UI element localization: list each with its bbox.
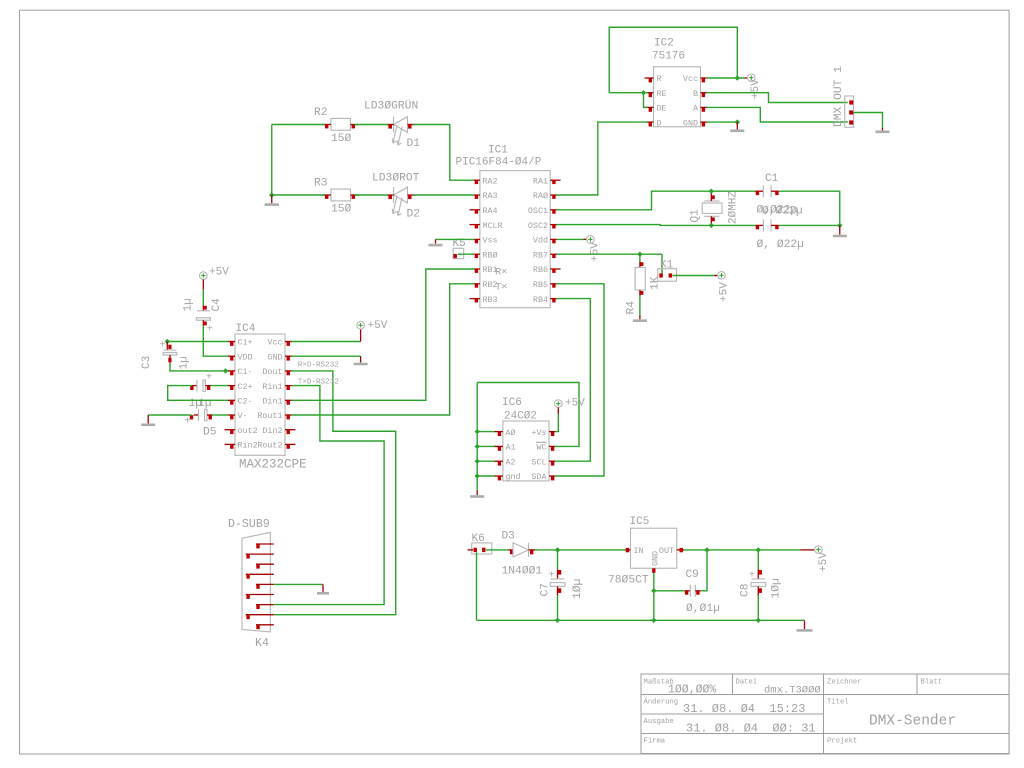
- wire vertical joining RA2 net column to ground: [271, 125, 273, 196]
- wire K5 to RB0: [458, 253, 475, 255]
- svg-text:OSC2: OSC2: [528, 221, 548, 231]
- svg-text:MCLR: MCLR: [483, 221, 503, 231]
- svg-text:+: +: [160, 341, 166, 352]
- svg-text:GND: GND: [267, 352, 282, 362]
- junction C7 top: [555, 547, 560, 552]
- wire R3 to D2: [355, 194, 389, 196]
- svg-text:+: +: [549, 571, 555, 582]
- svg-text:R×D-RS232: R×D-RS232: [298, 362, 339, 370]
- svg-text:SDA: SDA: [531, 472, 547, 482]
- junction IC5 GND / C9: [651, 588, 656, 593]
- svg-text:OSC1: OSC1: [528, 206, 548, 216]
- wire cap to V- of IC4: [212, 414, 228, 416]
- svg-text:78Ø5CT: 78Ø5CT: [608, 575, 649, 587]
- svg-text:Datei: Datei: [736, 679, 758, 687]
- capacitor C7 (10u) polarized: [549, 550, 566, 596]
- supply +5V symbol at K1: [714, 272, 731, 303]
- ground symbol at DMX OUT: [876, 128, 890, 132]
- svg-text:Ausgabe: Ausgabe: [644, 718, 674, 726]
- svg-text:D3: D3: [502, 531, 515, 543]
- junction ground rail / IC5 GND: [651, 618, 656, 623]
- ground symbol at rail end: [797, 620, 813, 630]
- wire B of IC2 to DMX OUT pin1: [707, 93, 848, 103]
- svg-text:VDD: VDD: [238, 352, 253, 362]
- wire ground column to R3: [272, 194, 325, 196]
- svg-text:IC4: IC4: [236, 323, 256, 335]
- svg-text:A2: A2: [506, 457, 516, 467]
- ground symbol at K4 pin5: [317, 584, 329, 593]
- IC2 left pins R,RE,DE,D: [645, 78, 654, 127]
- IC6 left pins A0,A1,A2,gnd: [494, 432, 503, 481]
- svg-text:+5V: +5V: [818, 552, 830, 572]
- svg-text:+5V: +5V: [209, 267, 229, 279]
- ground symbol at Vss: [429, 239, 443, 245]
- svg-text:DE: DE: [657, 104, 667, 114]
- svg-text:RB7: RB7: [533, 250, 548, 260]
- wire ground rail: [477, 619, 805, 621]
- connector K4 D-SUB9 body: [242, 532, 270, 632]
- connector K6 power input: [468, 543, 492, 554]
- svg-text:RB3: RB3: [483, 295, 498, 305]
- svg-text:C1-: C1-: [238, 367, 253, 377]
- wire D2 to IC1 RA3: [413, 194, 475, 196]
- wire RB7 to R4/K1 node: [557, 253, 663, 255]
- K4 pin 8: [246, 615, 274, 619]
- svg-text:C7: C7: [540, 583, 552, 597]
- svg-text:out2: out2: [238, 426, 258, 436]
- supply +5V symbol at IC5 OUT: [801, 546, 831, 572]
- IC U2: IC2 75176 body: [654, 67, 701, 127]
- junction OUT/C9: [704, 547, 709, 552]
- IC6 right pin names: [531, 428, 547, 482]
- svg-text:+Vs: +Vs: [531, 428, 546, 438]
- svg-text:C1+: C1+: [238, 338, 253, 348]
- junction gnd: [475, 473, 480, 478]
- wire Vcc of IC4 to +5V: [292, 341, 361, 343]
- svg-text:Dout: Dout: [262, 367, 282, 377]
- svg-text:Vss: Vss: [483, 236, 498, 246]
- svg-text:GND: GND: [683, 118, 698, 128]
- svg-text:Rin2: Rin2: [238, 441, 258, 451]
- ground symbol at IC4 GND: [354, 356, 368, 364]
- wire R4 to ground: [639, 296, 641, 316]
- wire C8 to ground rail: [757, 596, 759, 621]
- svg-text:Vcc: Vcc: [267, 338, 282, 348]
- wire C2 right side to ground node: [779, 224, 840, 226]
- svg-text:R4: R4: [626, 301, 638, 315]
- K4 pin 7: [256, 605, 274, 609]
- junction ground rail / C7: [555, 618, 560, 623]
- connector DMX OUT 1: [845, 96, 854, 127]
- wire bus loop over IC6 to WC pin: [477, 383, 579, 447]
- IC4 left pin names: [238, 338, 258, 451]
- capacitor C5b (1u) between C2+ and C2-: [190, 373, 212, 392]
- svg-text:Zeichner: Zeichner: [827, 679, 862, 687]
- ground symbol below R4: [633, 315, 647, 321]
- IC U6: IC6 24C02 body: [503, 421, 549, 481]
- svg-text:K6: K6: [472, 533, 485, 545]
- wire C5 to C1- of IC4: [170, 363, 228, 371]
- IC2 right pin names: [683, 74, 699, 128]
- svg-text:B: B: [693, 89, 698, 99]
- wire RB4 of IC1 to SCL of IC6: [555, 299, 590, 462]
- wire K6 pin1 down to ground rail: [476, 552, 478, 620]
- svg-text:1Øµ: 1Øµ: [572, 579, 584, 599]
- wire C1+ of IC4 to capacitor C5: [167, 342, 228, 345]
- wire DMX OUT pin2 to ground: [853, 113, 883, 128]
- svg-text:C4: C4: [211, 298, 223, 312]
- svg-text:75176: 75176: [652, 51, 685, 63]
- svg-text:R×: R×: [495, 267, 508, 279]
- wire IC5 GND down to ground rail: [653, 573, 655, 620]
- capacitor C9 (0,01u): [685, 585, 701, 597]
- svg-text:RB5: RB5: [533, 280, 548, 290]
- svg-text:D1: D1: [407, 138, 421, 150]
- svg-text:15Ø: 15Ø: [331, 133, 352, 145]
- wire Dout of IC4 to D-SUB9 pin8: [274, 371, 396, 615]
- wire IC5 GND to C9: [654, 590, 685, 592]
- svg-text:31. Ø8. Ø4 ØØ: 31: 31. Ø8. Ø4 ØØ: 31: [686, 722, 816, 736]
- capacitor C5 (1u) polarized between C1+ and C1-: [160, 341, 177, 364]
- svg-text:RBØ: RBØ: [483, 250, 498, 260]
- wire C9 right to OUT rail: [701, 550, 707, 591]
- svg-text:DMX-Sender: DMX-Sender: [869, 714, 956, 730]
- svg-text:31. Ø8. Ø4 15:23: 31. Ø8. Ø4 15:23: [683, 702, 805, 716]
- svg-text:IC5: IC5: [630, 516, 650, 528]
- capacitor C4 (1u) polarized: [196, 306, 213, 336]
- svg-text:IC2: IC2: [654, 38, 674, 50]
- svg-text:LD3ØGRÜN: LD3ØGRÜN: [364, 100, 418, 113]
- svg-text:Ø, Ø22µ: Ø, Ø22µ: [757, 239, 804, 251]
- junction A2: [475, 459, 480, 464]
- wire C7 to ground rail: [557, 596, 559, 621]
- wire down to K1 pin 1: [661, 254, 663, 274]
- wire A of IC2 to DMX OUT pin3: [707, 107, 848, 122]
- svg-text:Ø,Ø1µ: Ø,Ø1µ: [686, 603, 720, 615]
- svg-text:+5V: +5V: [565, 398, 585, 410]
- junction on C1- wire: [223, 368, 228, 373]
- svg-text:K4: K4: [255, 637, 269, 650]
- svg-text:Din1: Din1: [262, 397, 282, 407]
- svg-text:Din2: Din2: [262, 426, 282, 436]
- wire IC5 OUT to +5V: [684, 549, 801, 551]
- wire OSC1 of IC1 to crystal/C1: [557, 191, 756, 210]
- svg-text:RA4: RA4: [483, 206, 498, 216]
- svg-text:RA2: RA2: [483, 176, 498, 186]
- wire net RA2: left vertical from R2 to ground rail column: [272, 124, 325, 126]
- svg-text:R2: R2: [314, 107, 328, 119]
- svg-text:Firma: Firma: [644, 738, 666, 746]
- wire R2 to D1: [355, 124, 389, 126]
- wire D3 to IC5 IN: [535, 549, 626, 551]
- IC4 left pins C1+,VDD,C1-,C2+,C2-,V-,out2,Rin2: [225, 342, 236, 449]
- K4 pin 3: [256, 564, 274, 568]
- wire A1 to bus: [477, 445, 494, 447]
- svg-text:Ø,Ø22µ: Ø,Ø22µ: [762, 206, 803, 218]
- wire Rin1 of IC4 to D-SUB9 pin7: [274, 386, 384, 605]
- junction A0: [475, 429, 480, 434]
- IC1 left pin names: [483, 176, 503, 304]
- svg-text:LD3ØROT: LD3ØROT: [372, 173, 420, 185]
- junction ground rail / C8: [756, 618, 761, 623]
- junction RB7/R4: [637, 252, 642, 257]
- svg-text:DMX OUT 1: DMX OUT 1: [833, 66, 845, 127]
- wire +5V to C4: [202, 290, 204, 306]
- svg-text:V-: V-: [238, 411, 248, 421]
- svg-text:Titel: Titel: [827, 699, 849, 707]
- svg-text:2ØMHZ: 2ØMHZ: [728, 191, 740, 224]
- IC2 left pin names: [657, 74, 667, 128]
- svg-text:1K: 1K: [650, 276, 662, 290]
- crystal Q1: [702, 191, 722, 225]
- wire C2+ cap to C2- of IC4: [168, 386, 228, 401]
- ground symbol below IC6 bus: [470, 491, 484, 497]
- svg-text:Vdd: Vdd: [533, 236, 548, 246]
- ground symbol at V- cap: [141, 415, 155, 425]
- wire D1 to IC1 RA2: [413, 125, 475, 181]
- svg-text:RB6: RB6: [533, 265, 548, 275]
- junction crystal top / OSC1: [709, 189, 714, 194]
- svg-text:WC: WC: [536, 443, 546, 453]
- svg-text:OUT: OUT: [659, 546, 674, 556]
- supply +5V symbol at IC4 Vcc: [357, 320, 388, 342]
- svg-text:RB4: RB4: [533, 295, 548, 305]
- wire Vss to ground: [436, 238, 475, 240]
- supply +5V symbol above C4: [200, 267, 230, 290]
- svg-text:+: +: [185, 417, 191, 428]
- wire OSC2 of IC1 to crystal/C2: [557, 224, 756, 227]
- wire RB5 of IC1 to SDA of IC6: [555, 284, 604, 476]
- svg-text:+: +: [207, 325, 213, 336]
- IC6 left pin names: [506, 428, 521, 482]
- wire +5V to +Vs pin: [555, 414, 558, 432]
- svg-text:SCL: SCL: [531, 457, 546, 467]
- svg-text:+5V: +5V: [368, 320, 388, 332]
- svg-text:C9: C9: [686, 569, 699, 581]
- svg-text:RA3: RA3: [483, 191, 498, 201]
- svg-text:Rout1: Rout1: [257, 411, 282, 421]
- junction at LED ground column: [269, 192, 274, 197]
- svg-text:1ØØ,ØØ%: 1ØØ,ØØ%: [668, 684, 716, 697]
- svg-text:1µ: 1µ: [179, 356, 191, 369]
- ground symbol below LED column: [265, 195, 280, 205]
- svg-text:Projekt: Projekt: [827, 738, 857, 746]
- svg-text:+: +: [749, 571, 755, 582]
- svg-text:D-SUB9: D-SUB9: [228, 518, 270, 531]
- svg-text:D: D: [657, 118, 662, 128]
- wire V- cap to ground: [148, 414, 191, 416]
- IC6 right pins +Vs,WC,SCL,SDA: [549, 432, 555, 481]
- svg-text:PIC16F84-Ø4/P: PIC16F84-Ø4/P: [456, 157, 542, 169]
- junction Vcc/top loop: [735, 75, 740, 80]
- svg-text:IC1: IC1: [488, 145, 508, 157]
- wire K1 pin2 to +5V: [673, 275, 715, 277]
- title block frame: [641, 674, 1009, 754]
- wire K4 pin5 to ground: [274, 583, 323, 585]
- wire C1 right side down to ground node: [779, 191, 840, 225]
- ground symbol at IC2 GND: [730, 122, 744, 131]
- svg-text:+5V: +5V: [719, 282, 731, 302]
- svg-text:15Ø: 15Ø: [331, 204, 352, 216]
- wire Din1 of IC4 to RB1 (Rx) of IC1: [292, 269, 475, 400]
- svg-text:C2-: C2-: [238, 397, 253, 407]
- K4 pin 2: [246, 554, 274, 558]
- svg-text:24CØ2: 24CØ2: [504, 411, 537, 423]
- IC2 right pins Vcc,B,A,GND: [701, 78, 707, 127]
- IC U1: IC1 PIC16F84-04/P body: [480, 171, 550, 308]
- svg-text:C1: C1: [765, 173, 779, 185]
- jumper K5 at RB0: [453, 248, 464, 258]
- capacitor C2 (0,022u) bottom: [756, 219, 779, 231]
- wire K6 pin2 to D3: [486, 549, 509, 551]
- K4 pin 5: [256, 584, 274, 588]
- svg-text:+5V: +5V: [590, 242, 602, 262]
- svg-text:IN: IN: [634, 546, 644, 556]
- LED D2: [387, 187, 416, 215]
- junction OUT/C8: [756, 547, 761, 552]
- LED D1: [387, 117, 416, 145]
- wire Vcc of IC2 to +5V: [707, 77, 745, 79]
- IC1 left pins RA2,RA3,RA4,MCLR,Vss,RB0,RB1,RB2,RB3: [470, 180, 480, 303]
- svg-text:Blatt: Blatt: [921, 679, 943, 687]
- svg-text:C3: C3: [141, 356, 153, 369]
- svg-text:R3: R3: [314, 178, 328, 190]
- K4 pin 4: [246, 574, 274, 578]
- svg-text:Vcc: Vcc: [683, 74, 698, 84]
- capacitor C8 (10u) polarized: [749, 550, 766, 596]
- svg-text:Änderung: Änderung: [644, 698, 679, 707]
- IC5 OUT pin: [677, 548, 684, 552]
- junction C1+ corner: [165, 339, 170, 344]
- svg-text:C2+: C2+: [238, 382, 253, 392]
- svg-text:1Øµ: 1Øµ: [771, 578, 783, 598]
- IC5 GND pin: [652, 568, 655, 573]
- wire IC6 address/gnd bus vertical: [476, 383, 478, 491]
- svg-text:C8: C8: [740, 583, 752, 597]
- svg-text:Rin1: Rin1: [262, 382, 282, 392]
- overline of WC pin name: [536, 441, 547, 443]
- IC1 right pin names: [528, 176, 548, 304]
- supply +5V symbol at IC2 Vcc: [745, 74, 763, 99]
- svg-text:D5: D5: [203, 427, 217, 439]
- resistor R3 (150): [322, 189, 359, 201]
- resistor R2 (150): [322, 118, 359, 130]
- svg-text:gnd: gnd: [506, 472, 521, 482]
- wire gnd pin to bus: [477, 475, 494, 477]
- wire GND of IC4 to ground: [292, 355, 361, 357]
- svg-text:1µ: 1µ: [183, 298, 195, 311]
- svg-text:+5V: +5V: [750, 79, 762, 99]
- junction A1: [475, 444, 480, 449]
- svg-text:RE: RE: [657, 89, 667, 99]
- K4 pin 6: [246, 595, 274, 599]
- title block labels: [644, 679, 943, 746]
- K4 pin 1: [256, 544, 274, 548]
- IC U5: IC5 7805CT body: [631, 528, 677, 568]
- junction at IC2 GND ground stub: [735, 119, 740, 124]
- K4 pin 9: [256, 625, 274, 629]
- resistor R4 (1K) vertical: [635, 254, 645, 295]
- svg-text:Rout2: Rout2: [257, 441, 282, 451]
- jumper K1: [658, 269, 677, 282]
- svg-text:T×: T×: [495, 281, 508, 293]
- svg-text:IC6: IC6: [502, 397, 522, 409]
- svg-text:D2: D2: [407, 209, 421, 221]
- capacitor C6 (1u) at V-: [185, 409, 213, 427]
- svg-text:dmx.T3ØØØ: dmx.T3ØØØ: [764, 685, 821, 697]
- wire loop Vcc to RE/DE: [609, 27, 737, 92]
- IC U4: IC4 MAX232CPE body: [235, 334, 285, 455]
- supply +5V symbol at Vdd: [557, 236, 602, 262]
- svg-text:GND: GND: [651, 551, 661, 566]
- capacitor C1 (0,022u) top: [756, 185, 779, 197]
- svg-text:R: R: [657, 74, 662, 84]
- IC1 right pins RA1,RA0,OSC1,OSC2,Vdd,RB7,RB6,RB5,RB4: [550, 180, 560, 303]
- svg-text:AØ: AØ: [506, 428, 516, 438]
- svg-text:1N4ØØ1: 1N4ØØ1: [502, 566, 543, 578]
- wire cap to C2+ of IC4: [211, 385, 229, 387]
- svg-text:MAX232CPE: MAX232CPE: [239, 458, 307, 472]
- junction RE/DE tie: [641, 90, 646, 95]
- wire A2 to bus: [477, 460, 494, 462]
- svg-text:RA1: RA1: [533, 176, 548, 186]
- wire Rout1 of IC4 to RB2 (Tx) of IC1: [292, 284, 475, 415]
- svg-text:K1: K1: [660, 260, 674, 272]
- IC4 right pins Vcc,GND,Dout,Rin1,Din1,Rout1,Din2,Rout2: [285, 342, 296, 449]
- supply +5V symbol at IC6 +Vs: [555, 398, 586, 415]
- svg-text:Q1: Q1: [690, 209, 702, 223]
- diode D3 1N4001: [509, 543, 536, 557]
- wire RE junction down to DE: [644, 93, 648, 108]
- wire C4 to VDD of IC4: [203, 326, 228, 357]
- IC5 IN pin: [626, 548, 631, 552]
- svg-text:+: +: [206, 373, 212, 384]
- wire GND of IC2 to ground: [707, 121, 738, 123]
- wire A0 to bus: [477, 431, 494, 433]
- junction caps ground node: [837, 223, 842, 228]
- wire D of IC2 to RA0 of IC1: [557, 122, 648, 195]
- ground symbol at crystal caps: [833, 225, 847, 236]
- IC4 right pin names: [257, 338, 282, 451]
- svg-text:RAØ: RAØ: [533, 191, 548, 201]
- junction crystal bottom / OSC2: [709, 223, 714, 228]
- svg-text:A1: A1: [506, 443, 516, 453]
